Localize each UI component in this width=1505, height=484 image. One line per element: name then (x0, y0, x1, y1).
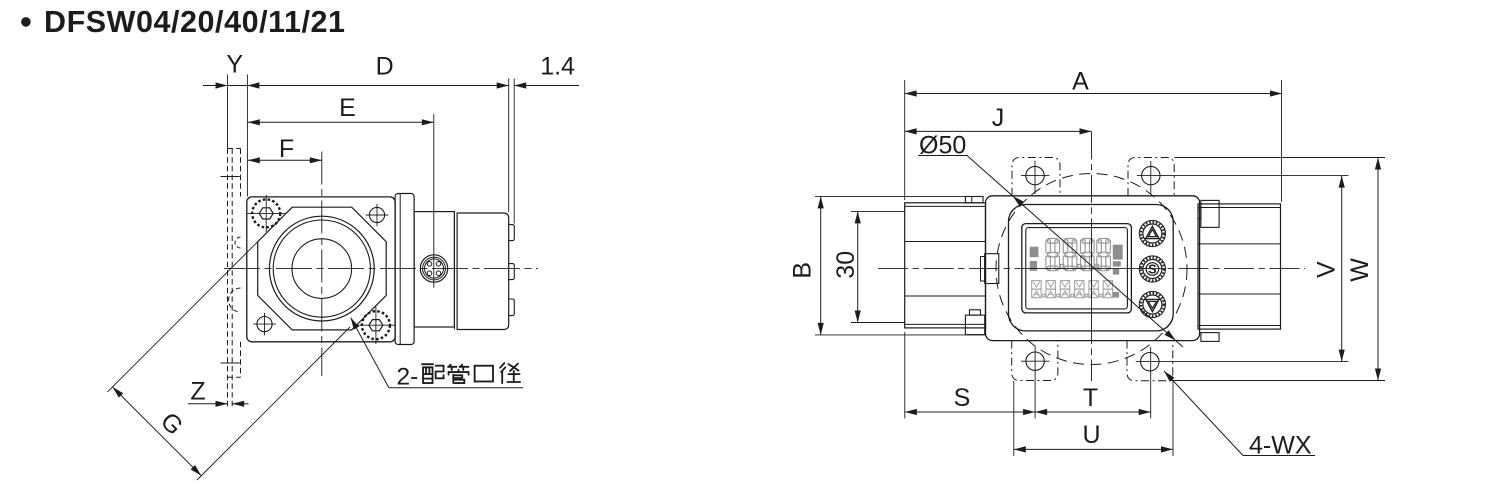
dimension line A (905, 93, 1282, 95)
dimension line Z left part (190, 403, 228, 405)
extension line Y left (227, 75, 229, 149)
svg-text:J: J (992, 104, 1005, 132)
extension line B top (815, 195, 983, 197)
kanji KOU (mouth) (475, 366, 493, 382)
M12 connector pins (427, 262, 432, 267)
arrow 1.4 (514, 82, 526, 88)
svg-text:Y: Y (226, 51, 243, 79)
button down (1139, 291, 1165, 317)
horizontal centerline (224, 268, 538, 270)
svg-text:S: S (954, 384, 971, 412)
svg-text:2-: 2- (397, 364, 419, 391)
extension line A right (1281, 80, 1283, 202)
extension line U right (1172, 381, 1174, 456)
hidden bracket lower scallop (229, 288, 241, 312)
right top cap (1201, 200, 1219, 227)
tab top-right (1128, 158, 1174, 196)
LCD right bar blocks (1113, 245, 1123, 260)
extension line V top (1137, 175, 1349, 177)
kanji KEI (500, 363, 520, 383)
left bottom lug (965, 315, 984, 335)
svg-text:Ø50: Ø50 (919, 132, 966, 160)
right port rib 1 (1198, 243, 1281, 245)
kanji KAN (448, 365, 468, 383)
barrel section A (414, 212, 454, 327)
screw top-left hex head (259, 208, 273, 219)
hidden bracket upper scallop (235, 237, 240, 248)
left mid boss (985, 254, 999, 284)
left mid boss thin (981, 257, 985, 282)
extension line G lower (197, 327, 350, 480)
extension line V bottom (1136, 361, 1349, 363)
port bore outer circle (269, 216, 374, 321)
pipe tick lower (221, 362, 240, 364)
extension line S left (904, 332, 906, 419)
4-WX underline (1243, 455, 1315, 457)
tab hole top-right (1142, 166, 1160, 184)
screw bottom-right hex head (369, 320, 383, 331)
right bottom lug (1201, 333, 1219, 342)
leader underline (389, 387, 523, 389)
dimension line B (820, 196, 822, 335)
LCD big digits 8888 (1046, 239, 1060, 271)
right port inner line top (1198, 207, 1281, 209)
screw top-left crosshair (248, 212, 285, 214)
dia 50 leader line (967, 156, 1183, 348)
M12 connector ring 3 (425, 259, 444, 278)
svg-text:W: W (1346, 258, 1374, 282)
button up (1139, 220, 1165, 246)
dimension line E (248, 121, 434, 123)
dimension line F (248, 159, 322, 161)
svg-text:F: F (279, 135, 294, 163)
svg-text:E: E (339, 94, 356, 122)
svg-text:D: D (376, 53, 394, 81)
hole bottom-left crosshair (253, 323, 276, 325)
screw top-left threaded ring (252, 199, 280, 227)
kanji HAI (422, 364, 444, 383)
tab top-left (1012, 158, 1060, 196)
left port inner line bottom (905, 323, 986, 325)
hole bottom-left (257, 317, 272, 332)
left port rib 1 (905, 241, 986, 243)
tab hole top-left (1026, 166, 1044, 184)
extension line D left (246, 75, 248, 197)
extension line E right (433, 114, 435, 288)
screw bottom-right crosshair (357, 324, 394, 326)
left top lug (965, 197, 983, 203)
title bullet (21, 17, 31, 27)
base body (986, 196, 1200, 341)
LCD small digits row (1032, 281, 1041, 298)
dashed envelope circle dia 50 (996, 174, 1187, 365)
LCD left bar blocks (1030, 247, 1039, 258)
left port rib 2 (905, 295, 986, 297)
tab bottom-right (1127, 341, 1173, 381)
arrow D right (497, 82, 509, 88)
svg-text:T: T (1083, 384, 1098, 412)
pipe tick upper (221, 176, 240, 178)
svg-text:V: V (1313, 261, 1341, 278)
vertical centerline (321, 152, 323, 377)
arrow Y left (216, 82, 228, 88)
dimension line G (113, 387, 202, 476)
left port block (905, 203, 986, 328)
extension line A left (904, 80, 906, 200)
svg-text:1.4: 1.4 (540, 53, 575, 81)
LCD frame outer (1022, 224, 1132, 313)
extension line 1.4 right (513, 79, 515, 224)
hidden bracket vertical (240, 149, 242, 197)
dia 50 label underline (918, 155, 967, 157)
LCD frame inner (1026, 228, 1128, 309)
connector lug bottom (509, 299, 515, 316)
extension line U left (1013, 381, 1015, 456)
arrow D left (247, 82, 259, 88)
right view horizontal centerline (878, 268, 1016, 270)
svg-text:U: U (1082, 421, 1100, 449)
extension line T right (1150, 347, 1152, 419)
flange band inner line (399, 194, 401, 345)
screw bottom-right threaded ring (362, 311, 390, 339)
dimension line Y/D (203, 85, 509, 87)
dimension line Z right part (232, 403, 248, 405)
4-WX leader (1164, 371, 1243, 456)
svg-text:A: A (1072, 68, 1089, 96)
LCD big digit decimal points (1061, 265, 1064, 269)
dimension line V (1341, 176, 1343, 362)
display unit housing (1009, 205, 1174, 331)
svg-text:DFSW04/20/40/11/21: DFSW04/20/40/11/21 (44, 5, 346, 39)
extension line 30 top (851, 210, 905, 212)
svg-text:30: 30 (832, 251, 860, 279)
right port inner line bottom (1198, 325, 1281, 327)
connector lug top (509, 225, 515, 241)
right view vertical centerline (1091, 131, 1093, 221)
hidden pipe line right (231, 149, 233, 408)
label Z underline (188, 403, 190, 405)
M12 connector ring 2 (423, 257, 446, 280)
port bore inner circle (292, 239, 352, 299)
extension line D right (508, 79, 510, 213)
dimension line T (1035, 411, 1151, 413)
hidden bracket top step (228, 148, 241, 150)
flange right band (395, 194, 414, 345)
dimension line J (905, 130, 1092, 132)
svg-text:S: S (1148, 262, 1156, 276)
tab hole bottom-left (1026, 352, 1044, 370)
extension line G upper (chamfer extended) (108, 207, 293, 392)
svg-text:Z: Z (190, 378, 205, 406)
extension line B bottom (815, 334, 985, 336)
hole top-right crosshair (366, 214, 389, 216)
right top cap step (1198, 210, 1201, 219)
extension line W bottom (1171, 380, 1385, 382)
dimension 1.4 line (514, 85, 579, 87)
svg-text:4-WX: 4-WX (1249, 432, 1312, 460)
M12 connector outer circle (420, 255, 447, 282)
hidden pipe line left (227, 149, 229, 408)
leader arrow to bore (351, 318, 389, 388)
left port inner line top (905, 205, 986, 207)
tab hole bottom-right (1141, 353, 1159, 371)
tab bottom-left (1012, 341, 1058, 381)
barrel section B (457, 213, 509, 330)
button set (1139, 256, 1165, 282)
dimension line U (1014, 448, 1173, 450)
right port rib 2 (1198, 293, 1281, 295)
extension line S/T shared (1034, 346, 1036, 419)
barrel divider line (453, 213, 455, 330)
svg-text:B: B (789, 262, 817, 279)
connector lug middle (509, 264, 515, 280)
extension line 30 bottom (851, 322, 905, 324)
octagonal face plate (258, 207, 387, 330)
dimension line W (1377, 158, 1379, 381)
dimension line 30 (857, 211, 859, 322)
dimension line S (905, 411, 1035, 413)
left bottom lug neck (970, 310, 981, 315)
right port block (1198, 204, 1281, 329)
hidden bracket bottom step (228, 376, 241, 378)
port bore middle circle (273, 220, 370, 317)
hole top-right (369, 207, 384, 222)
flange body outline (247, 197, 395, 342)
extension line W top (1175, 157, 1386, 159)
